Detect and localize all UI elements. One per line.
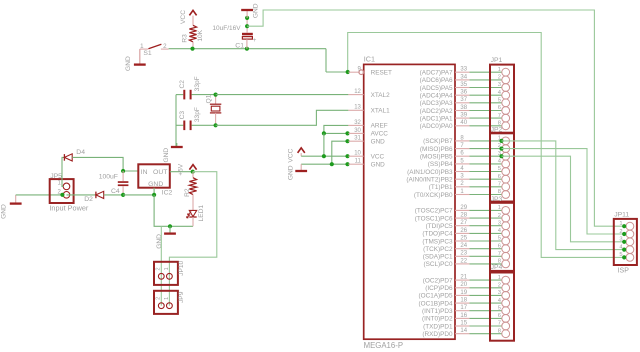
svg-text:32: 32 [354, 120, 361, 126]
svg-text:(ADC0)PA0: (ADC0)PA0 [420, 123, 453, 130]
svg-text:(TOSC1)PC6: (TOSC1)PC6 [415, 215, 453, 222]
svg-text:(OC1A)PD5: (OC1A)PD5 [419, 293, 454, 300]
junction (JP2 pin1) [499, 139, 503, 143]
svg-text:R2: R2 [184, 188, 191, 197]
svg-text:100uF: 100uF [99, 173, 118, 180]
svg-text:XTAL1: XTAL1 [371, 108, 391, 115]
svg-text:GND: GND [125, 56, 132, 71]
svg-text:MEGA16-P: MEGA16-P [364, 341, 403, 350]
svg-text:(TCK)PC2: (TCK)PC2 [423, 246, 453, 253]
svg-text:(AIN1/OC0)PB3: (AIN1/OC0)PB3 [407, 169, 453, 176]
svg-text:6: 6 [498, 313, 501, 319]
svg-text:5: 5 [498, 305, 501, 311]
svg-text:12: 12 [354, 89, 361, 95]
svg-text:16: 16 [460, 313, 467, 319]
svg-text:(SS)PB4: (SS)PB4 [428, 161, 453, 168]
svg-text:JP3: JP3 [491, 196, 503, 203]
junction (C1/wire) [245, 47, 249, 51]
connector JP10 [154, 260, 185, 284]
svg-text:28: 28 [460, 213, 467, 219]
ground (IC left) [287, 164, 307, 180]
svg-text:GND: GND [163, 148, 170, 163]
svg-text:2: 2 [498, 213, 501, 219]
crystal Q1 [206, 94, 222, 125]
svg-text:1: 1 [164, 267, 170, 270]
svg-text:5: 5 [498, 236, 501, 242]
svg-text:JP10: JP10 [178, 260, 185, 275]
svg-text:IC1: IC1 [364, 55, 375, 64]
power VCC symbol (R3 top) [180, 10, 197, 25]
svg-text:36: 36 [460, 90, 467, 96]
svg-text:(MOSI)PB5: (MOSI)PB5 [420, 154, 453, 161]
junction (IN node) [121, 169, 125, 173]
svg-text:6: 6 [498, 243, 501, 249]
svg-text:D2: D2 [84, 196, 93, 203]
svg-text:AREF: AREF [371, 123, 388, 130]
switch S1 [140, 43, 169, 64]
svg-text:8: 8 [498, 189, 501, 195]
svg-text:33pF: 33pF [194, 107, 201, 122]
svg-text:10uF/16V: 10uF/16V [212, 25, 241, 32]
svg-text:(TMS)PC3: (TMS)PC3 [422, 238, 453, 245]
svg-text:6: 6 [498, 174, 501, 180]
svg-text:1: 1 [140, 43, 144, 50]
wire JP10 to JP9 left [160, 276, 162, 305]
junction (JP11 pin 5) [622, 255, 626, 259]
svg-text:C3: C3 [179, 111, 186, 120]
junction (Q1 bottom) [214, 123, 218, 127]
svg-text:GND: GND [287, 165, 294, 180]
svg-text:7: 7 [498, 321, 501, 327]
svg-text:18: 18 [460, 297, 467, 303]
svg-text:39: 39 [460, 113, 467, 119]
wire XTAL1 [216, 110, 349, 125]
junction (RESET node) [346, 70, 350, 74]
svg-text:7: 7 [498, 113, 501, 119]
junction (IC2 GND pin) [152, 193, 156, 197]
svg-text:AVCC: AVCC [371, 131, 389, 138]
svg-text:(ADC5)PA5: (ADC5)PA5 [420, 85, 453, 92]
svg-text:3: 3 [498, 290, 501, 296]
resistor R3 [181, 25, 204, 48]
wire C4 to IC2 GND node [123, 194, 154, 196]
svg-text:17: 17 [460, 305, 467, 311]
svg-text:RESET: RESET [371, 70, 392, 77]
svg-text:34: 34 [460, 74, 467, 80]
svg-text:11: 11 [355, 159, 362, 165]
junction (JP11 pin 1) [622, 224, 626, 228]
svg-text:ISP: ISP [618, 268, 630, 275]
wire JP5 pin1 to D4 [62, 157, 64, 186]
connector JP5 [49, 173, 89, 212]
junction (C1 top b) [245, 24, 249, 28]
wire C2/C3 left to ground [175, 95, 177, 146]
junction (JP5 pin2) [60, 193, 64, 197]
svg-text:21: 21 [460, 275, 467, 281]
svg-text:19: 19 [460, 290, 467, 296]
ground (C1 top) [241, 3, 259, 18]
junction (JP11 pin 4) [622, 248, 626, 252]
svg-text:GND: GND [252, 3, 259, 18]
svg-text:S1: S1 [143, 50, 152, 57]
svg-text:JP11: JP11 [614, 211, 629, 218]
diode D2 [84, 191, 104, 203]
svg-text:(SDA)PC1: (SDA)PC1 [423, 254, 453, 261]
resistor R2 [184, 172, 196, 197]
connector JP11 [614, 211, 637, 274]
connector JP1 [490, 57, 514, 133]
connector JP4 [490, 264, 514, 341]
connector JP3 [490, 196, 514, 271]
wire GND11 row [301, 163, 348, 165]
junction (C1 top a) [245, 16, 249, 20]
junction (VCC pin) [345, 154, 349, 158]
svg-text:10: 10 [354, 151, 361, 157]
svg-text:OUT: OUT [153, 169, 167, 176]
wire MOSI to ISP [502, 156, 624, 242]
svg-text:2: 2 [498, 282, 501, 288]
svg-text:1: 1 [498, 275, 501, 281]
junction (GND31 pin) [345, 139, 349, 143]
wire XTAL2 [216, 94, 349, 96]
svg-text:(TDO)PC4: (TDO)PC4 [422, 231, 453, 238]
svg-text:35: 35 [460, 82, 467, 88]
wires IC to JP headers [470, 72, 502, 334]
svg-text:(INT0)PD2: (INT0)PD2 [422, 316, 453, 323]
voltage regulator IC2 [138, 164, 172, 196]
svg-text:GND: GND [371, 139, 386, 146]
svg-text:JP1: JP1 [491, 57, 503, 64]
svg-text:(ADC1)PA1: (ADC1)PA1 [420, 115, 453, 122]
svg-text:2: 2 [163, 43, 167, 50]
junction (JP2 pin3) [499, 154, 503, 158]
svg-text:2: 2 [156, 267, 162, 270]
svg-text:33: 33 [460, 67, 467, 73]
svg-text:13: 13 [354, 105, 361, 111]
junction (AVCC pin) [345, 131, 349, 135]
svg-text:3: 3 [498, 82, 501, 88]
svg-text:+5V: +5V [178, 163, 185, 176]
svg-text:15: 15 [460, 320, 467, 326]
wire VCC row [301, 155, 348, 157]
svg-text:GND: GND [1, 204, 8, 219]
wire GND31 [332, 141, 349, 164]
svg-text:XTAL2: XTAL2 [371, 92, 391, 99]
wire IC2 OUT [170, 171, 193, 173]
svg-text:22: 22 [460, 258, 467, 264]
op-amp U1 IC1 MEGA16-P box and pins [348, 55, 469, 350]
svg-text:C1: C1 [235, 43, 244, 50]
svg-text:25: 25 [460, 235, 467, 241]
svg-text:24: 24 [460, 243, 467, 249]
svg-text:27: 27 [460, 220, 467, 226]
wire AVCC [324, 132, 349, 134]
svg-text:3: 3 [498, 220, 501, 226]
connector JP9 [154, 291, 185, 314]
junction (R3/wire) [190, 47, 194, 51]
svg-text:(SCK)PB7: (SCK)PB7 [423, 138, 453, 145]
svg-text:Input Power: Input Power [49, 203, 89, 212]
svg-text:40: 40 [460, 120, 467, 126]
LED LED1 [187, 195, 206, 227]
svg-text:(ADC3)PA3: (ADC3)PA3 [420, 100, 453, 107]
capacitor C3 33pF [176, 107, 216, 130]
svg-text:(TOSC2)PC7: (TOSC2)PC7 [415, 208, 453, 215]
wire input power row [16, 194, 64, 196]
svg-text:(ADC4)PA4: (ADC4)PA4 [420, 93, 453, 100]
svg-text:7: 7 [498, 251, 501, 257]
wire JP5 pin2 to D2 [67, 194, 96, 196]
svg-text:26: 26 [460, 228, 467, 234]
svg-text:JP5: JP5 [50, 173, 62, 180]
power VCC symbol (IC left) [287, 148, 305, 163]
junction (+5V node) [191, 170, 195, 174]
junction (AVCC riser) [322, 131, 326, 135]
svg-text:JP9: JP9 [178, 291, 185, 303]
svg-text:(OC1B)PD4: (OC1B)PD4 [419, 300, 454, 307]
capacitor C4 100uF [99, 171, 129, 195]
svg-text:VCC: VCC [371, 154, 385, 161]
wire IC2 GND down [154, 195, 193, 226]
connector JP2 [490, 126, 514, 201]
svg-text:(TXD)PD1: (TXD)PD1 [423, 323, 453, 330]
svg-text:(AIN0/INT2)PB2: (AIN0/INT2)PB2 [406, 177, 453, 184]
svg-text:2: 2 [498, 75, 501, 81]
svg-text:(ADC7)PA7: (ADC7)PA7 [420, 70, 453, 77]
svg-text:VCC: VCC [287, 148, 294, 162]
svg-text:10K: 10K [197, 29, 204, 41]
wire MISO to ISP [502, 149, 624, 234]
svg-text:1: 1 [164, 297, 170, 300]
svg-text:GND: GND [371, 162, 386, 169]
power +5V symbol [178, 163, 197, 176]
junction (GND riser) [330, 162, 334, 166]
junction (GND11 pin) [345, 162, 349, 166]
svg-text:(RXD)PD0: (RXD)PD0 [422, 331, 453, 338]
wire D4 to IN node [72, 157, 138, 171]
svg-text:(ICP)PD6: (ICP)PD6 [425, 285, 453, 292]
svg-text:(ADC6)PA6: (ADC6)PA6 [420, 77, 453, 84]
svg-text:2: 2 [156, 297, 162, 300]
svg-text:1: 1 [498, 205, 501, 211]
svg-text:Q1: Q1 [206, 94, 213, 103]
svg-text:29: 29 [460, 205, 467, 211]
svg-text:(SCL)PC0: (SCL)PC0 [423, 261, 453, 268]
svg-text:33pF: 33pF [194, 76, 201, 91]
diode D4 [64, 149, 85, 161]
junction (GND sym node) [168, 224, 172, 228]
svg-text:LED1: LED1 [198, 205, 205, 222]
svg-text:(TDI)PC5: (TDI)PC5 [426, 223, 453, 230]
svg-text:(INT1)PD3: (INT1)PD3 [422, 308, 453, 315]
wire D2 to C4 node [104, 194, 123, 196]
svg-text:23: 23 [460, 251, 467, 257]
svg-text:6: 6 [498, 105, 501, 111]
wire AREF to AVCC [324, 125, 349, 133]
wire S1 to RESET node [169, 49, 348, 72]
svg-text:(OC2)PD7: (OC2)PD7 [423, 277, 453, 284]
svg-text:30: 30 [354, 128, 361, 134]
ground (input left) [1, 195, 22, 219]
svg-text:(T1)PB1: (T1)PB1 [429, 184, 453, 191]
svg-text:1: 1 [498, 67, 501, 73]
svg-text:(T0/XCK)PB0: (T0/XCK)PB0 [414, 192, 453, 199]
svg-text:IN: IN [141, 169, 148, 176]
wire SCK to ISP [502, 141, 624, 250]
wire +5V to JP10 [169, 172, 216, 277]
junction (VCC riser) [322, 154, 326, 158]
svg-text:20: 20 [460, 282, 467, 288]
svg-text:C2: C2 [179, 80, 186, 89]
svg-text:14: 14 [460, 328, 467, 334]
svg-text:+: + [253, 37, 257, 44]
svg-text:5: 5 [498, 98, 501, 104]
wire GND net to ISP (top rail) [247, 10, 624, 226]
capacitor C2 33pF [176, 76, 216, 99]
wire RESET net to ISP [348, 33, 624, 258]
junction (JP11 pin 2) [622, 232, 626, 236]
wire AVCC riser to VCC row [323, 133, 325, 156]
ground (LED) [156, 226, 176, 248]
junction (C4 bottom) [121, 193, 125, 197]
svg-text:IC2: IC2 [162, 190, 173, 197]
svg-text:R3: R3 [181, 34, 188, 43]
svg-text:(ADC2)PA2: (ADC2)PA2 [420, 108, 453, 115]
svg-text:VCC: VCC [180, 10, 187, 24]
junction (JP2 pin2) [499, 147, 503, 151]
ground (S1) [125, 49, 146, 71]
svg-text:JP4: JP4 [491, 264, 503, 271]
svg-text:(MISO)PB6: (MISO)PB6 [420, 146, 453, 153]
svg-text:D4: D4 [76, 149, 85, 156]
svg-text:C4: C4 [111, 188, 120, 195]
svg-text:8: 8 [498, 328, 501, 334]
junction (JP11 pin 3) [622, 240, 626, 244]
svg-text:GND: GND [148, 181, 163, 188]
capacitor C1 10uF/16V [212, 18, 256, 50]
svg-text:7: 7 [498, 182, 501, 188]
ground (crystal) [163, 143, 183, 163]
svg-text:5: 5 [498, 166, 501, 172]
wire GND to JP10 [160, 226, 162, 276]
svg-text:31: 31 [354, 136, 361, 142]
svg-text:JP2: JP2 [491, 126, 503, 133]
svg-text:38: 38 [460, 105, 467, 111]
junction (Q1 top) [214, 93, 218, 97]
svg-text:37: 37 [460, 97, 467, 103]
wire JP10 to JP9 right [168, 276, 170, 305]
